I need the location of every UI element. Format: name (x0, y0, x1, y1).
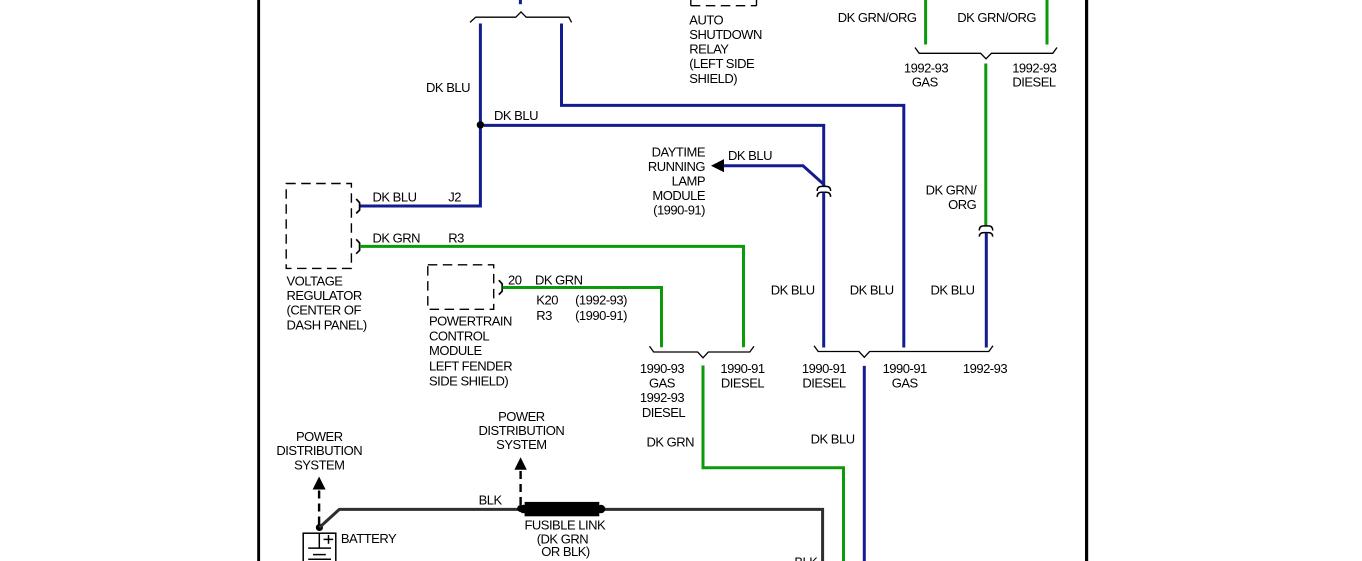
svg-text:20: 20 (508, 273, 522, 288)
svg-text:DK BLU: DK BLU (850, 283, 894, 298)
svg-text:(1992-93): (1992-93) (575, 293, 627, 308)
wire: DK GRN/ORG left (1992-93 gas) (924, 0, 927, 45)
connector pin arc 20 (499, 280, 502, 294)
svg-text:J2: J2 (448, 190, 461, 205)
svg-text:LEFT FENDER: LEFT FENDER (429, 358, 512, 373)
svg-text:BLK: BLK (794, 555, 818, 561)
wire: DK BLU merged drop (863, 366, 866, 561)
svg-text:MODULE: MODULE (652, 188, 705, 203)
svg-text:DK GRN: DK GRN (535, 273, 583, 288)
powertrain control module dashed box (428, 265, 494, 310)
svg-text:1992-93: 1992-93 (904, 61, 948, 76)
connector pin arc J2 (356, 199, 359, 213)
svg-text:DIESEL: DIESEL (1012, 75, 1056, 90)
svg-text:DK GRN/ORG: DK GRN/ORG (957, 10, 1036, 25)
junction node dot (477, 121, 484, 128)
right page border (1085, 0, 1088, 561)
svg-text:BATTERY: BATTERY (341, 531, 397, 546)
svg-text:MODULE: MODULE (429, 343, 482, 358)
battery positive node dot (316, 524, 323, 531)
dashed reference line (middle) (519, 471, 521, 506)
wire: blue stub above top brace (519, 0, 522, 4)
arrow to power distribution system (middle) (514, 457, 526, 470)
junction node dot at fusible link (517, 505, 524, 512)
svg-text:SYSTEM: SYSTEM (496, 437, 546, 452)
svg-text:R3: R3 (448, 231, 464, 246)
svg-text:RUNNING: RUNNING (648, 159, 706, 174)
svg-text:DK BLU: DK BLU (494, 108, 538, 123)
svg-text:(1990-91): (1990-91) (653, 203, 705, 218)
svg-text:DISTRIBUTION: DISTRIBUTION (276, 443, 362, 458)
svg-text:K20: K20 (536, 293, 558, 308)
brace (blue merge, tip down) (814, 346, 993, 358)
svg-text:1990-91: 1990-91 (802, 361, 846, 376)
svg-text:OR BLK): OR BLK) (541, 544, 590, 559)
wire: DK BLU to DRL module (724, 166, 824, 187)
svg-text:DK GRN/ORG: DK GRN/ORG (838, 10, 917, 25)
svg-text:(CENTER OF: (CENTER OF (287, 303, 362, 318)
svg-text:1992-93: 1992-93 (640, 390, 684, 405)
svg-text:(1990-91): (1990-91) (575, 308, 627, 323)
arrow to power distribution system (left) (313, 477, 326, 490)
svg-text:DK BLU: DK BLU (811, 431, 855, 446)
svg-text:CONTROL: CONTROL (429, 329, 489, 344)
connector pin arc R3 (356, 239, 359, 253)
fusible link element (519, 502, 605, 516)
wire: DK BLU horizontal from junction to 1990-91 DIESEL drop (484, 125, 824, 186)
svg-text:SHUTDOWN: SHUTDOWN (689, 27, 762, 42)
svg-text:1992-93: 1992-93 (1012, 61, 1056, 76)
svg-text:VOLTAGE: VOLTAGE (287, 273, 344, 288)
svg-text:LAMP: LAMP (672, 174, 705, 189)
auto shutdown relay dashed box fragment (691, 0, 757, 6)
wire: DK GRN merged drop to battery feed (703, 366, 844, 561)
svg-text:1990-91: 1990-91 (720, 361, 764, 376)
inline connector symbol on DK BLU drop (817, 186, 830, 197)
battery B1 (303, 533, 336, 561)
svg-text:1990-93: 1990-93 (640, 361, 684, 376)
svg-text:REGULATOR: REGULATOR (287, 288, 362, 303)
svg-text:RELAY: RELAY (689, 41, 729, 56)
svg-text:ORG: ORG (948, 197, 977, 212)
wire: DK BLU below connector to 1990-91 DIESEL (822, 193, 825, 348)
wire: DK GRN K20 to 1990-93 GAS drop (503, 288, 662, 348)
svg-text:R3: R3 (536, 308, 552, 323)
svg-text:POWERTRAIN: POWERTRAIN (429, 313, 512, 328)
svg-text:BLK: BLK (479, 492, 503, 507)
svg-text:DIESEL: DIESEL (642, 405, 686, 420)
wire: DK GRN R3 to 1990-91 DIESEL drop (360, 246, 744, 347)
wire: BLK battery feed (319, 509, 822, 561)
brace (top right, tip down) (915, 48, 1057, 59)
wire: DK GRN/ORG merged drop (984, 64, 987, 227)
svg-text:DK BLU: DK BLU (728, 148, 772, 163)
svg-text:SYSTEM: SYSTEM (294, 457, 344, 472)
svg-text:GAS: GAS (912, 75, 939, 90)
wire: DK GRN/ORG right (1992-93 diesel) (1046, 0, 1049, 45)
svg-text:SHIELD): SHIELD) (689, 71, 737, 86)
svg-text:DK BLU: DK BLU (771, 283, 815, 298)
svg-text:DK BLU: DK BLU (931, 283, 975, 298)
wire: DK BLU vertical from brace to voltage regulator J2 (360, 24, 480, 207)
brace (top centre, tip up) (470, 12, 572, 23)
voltage regulator dashed box (286, 184, 351, 269)
svg-text:DASH PANEL): DASH PANEL) (287, 317, 367, 332)
svg-text:DK GRN: DK GRN (373, 231, 421, 246)
svg-text:DK GRN/: DK GRN/ (926, 182, 978, 197)
svg-text:DK BLU: DK BLU (373, 190, 417, 205)
wire: DK BLU continuation to 1992-93 (985, 233, 988, 348)
svg-text:DIESEL: DIESEL (802, 376, 846, 391)
svg-text:DK GRN: DK GRN (646, 434, 694, 449)
svg-text:DAYTIME: DAYTIME (652, 144, 706, 159)
inline connector symbol (green to blue) (979, 226, 992, 237)
svg-text:1990-91: 1990-91 (883, 361, 927, 376)
svg-text:1992-93: 1992-93 (963, 361, 1007, 376)
brace (green merge, tip down) (650, 346, 755, 358)
svg-text:FUSIBLE LINK: FUSIBLE LINK (524, 518, 606, 533)
arrow to daytime running lamp module (711, 159, 724, 172)
svg-text:DIESEL: DIESEL (721, 376, 765, 391)
svg-text:GAS: GAS (892, 376, 919, 391)
left page border (257, 0, 260, 561)
svg-text:POWER: POWER (296, 429, 343, 444)
wire: DK BLU right branch down and across to 1990-91 GAS (562, 24, 904, 348)
svg-text:SIDE SHIELD): SIDE SHIELD) (429, 373, 508, 388)
svg-text:DISTRIBUTION: DISTRIBUTION (479, 423, 565, 438)
dashed reference line (left) (318, 491, 320, 527)
svg-text:DK BLU: DK BLU (426, 80, 470, 95)
svg-text:(LEFT SIDE: (LEFT SIDE (689, 56, 755, 71)
svg-text:GAS: GAS (649, 376, 676, 391)
svg-text:AUTO: AUTO (689, 13, 723, 28)
